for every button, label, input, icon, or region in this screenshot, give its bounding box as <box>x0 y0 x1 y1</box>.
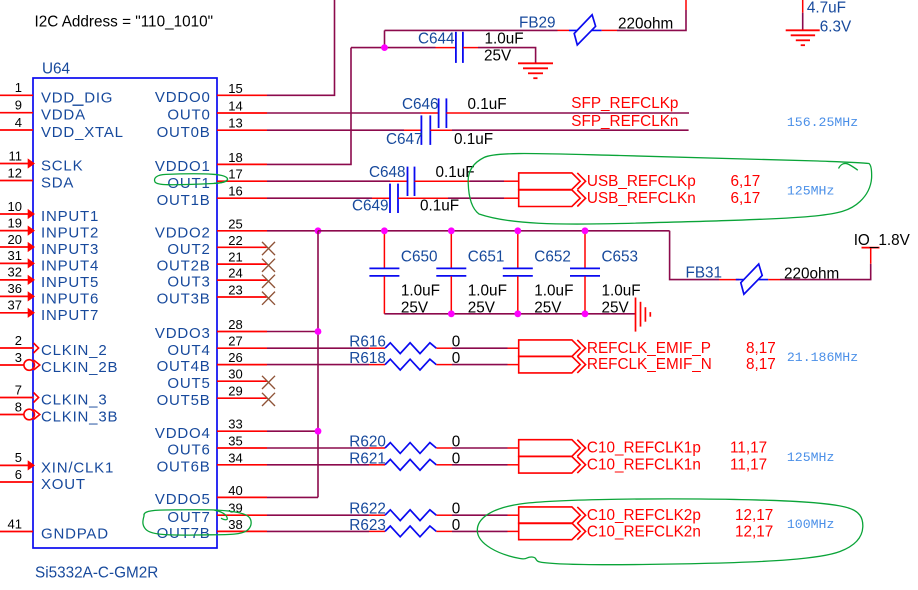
wire FB29 left red lead <box>558 29 570 31</box>
pin 39 OUT7 (right stub + number + name) <box>167 501 267 526</box>
svg-text:1.0uF: 1.0uF <box>485 31 524 48</box>
svg-text:23: 23 <box>228 283 242 298</box>
pin 11 SCLK (left stub + number + name) <box>0 148 83 174</box>
node junction C651 top <box>448 227 455 234</box>
svg-text:12,17: 12,17 <box>735 507 773 524</box>
wire OUT1 row to C648 <box>267 180 390 182</box>
svg-text:16: 16 <box>228 184 242 199</box>
pin 29 OUT5B (right stub + number + name) <box>157 384 275 409</box>
svg-text:I2C Address = "110_1010": I2C Address = "110_1010" <box>35 14 214 31</box>
power symbol IO_1.8V <box>862 248 880 264</box>
svg-text:OUT2B: OUT2B <box>157 258 211 275</box>
svg-text:5: 5 <box>15 450 22 465</box>
svg-text:INPUT2: INPUT2 <box>41 225 99 242</box>
pin 32 INPUT5 (left stub + number + name) <box>0 265 99 291</box>
svg-text:GNDPAD: GNDPAD <box>41 526 109 543</box>
svg-text:R623: R623 <box>349 517 386 534</box>
svg-text:OUT4: OUT4 <box>167 342 210 359</box>
IC U64 <box>33 78 217 548</box>
wire FB31 right red lead <box>768 279 780 281</box>
svg-text:VDD_XTAL: VDD_XTAL <box>41 124 124 141</box>
svg-text:13: 13 <box>228 116 242 131</box>
capacitor C650 <box>369 232 399 314</box>
wire top edge red (off page) <box>685 0 687 10</box>
svg-text:21.186MHz: 21.186MHz <box>787 350 858 365</box>
wire R618 right <box>436 364 452 366</box>
off-page port C10_REFCLK1 (double pentagon) <box>519 440 586 473</box>
pin 3 CLKIN_2B (left stub + number + name) <box>0 350 118 376</box>
svg-text:FB29: FB29 <box>519 15 556 32</box>
node junction C653 top <box>582 227 589 234</box>
svg-text:OUT4B: OUT4B <box>157 358 211 375</box>
svg-text:OUT1B: OUT1B <box>157 192 211 209</box>
ferrite bead FB31 <box>741 264 762 294</box>
wire C644 to ground <box>478 48 536 64</box>
pin 23 OUT3B (right stub + number + name) <box>157 283 275 308</box>
svg-text:R622: R622 <box>349 501 386 518</box>
svg-text:1.0uF: 1.0uF <box>401 283 440 300</box>
capacitor C649 <box>372 184 448 213</box>
wire R623 right <box>436 530 452 532</box>
svg-text:12,17: 12,17 <box>735 524 773 541</box>
node junction C652 bottom <box>514 310 521 317</box>
svg-text:8,17: 8,17 <box>746 340 776 357</box>
svg-text:29: 29 <box>228 384 242 399</box>
node junction C651 bottom <box>448 310 455 317</box>
wire vertical VDDO bus <box>317 231 319 498</box>
wire VDDO3 pin28 to bus <box>267 331 318 333</box>
svg-text:U64: U64 <box>42 61 71 78</box>
svg-text:26: 26 <box>228 350 242 365</box>
svg-text:C653: C653 <box>602 249 639 266</box>
wire R616 left <box>267 347 369 349</box>
svg-text:R616: R616 <box>349 334 386 351</box>
capacitor C644 <box>436 32 479 63</box>
svg-text:18: 18 <box>228 150 242 165</box>
svg-text:9: 9 <box>15 98 22 113</box>
svg-text:CLKIN_3: CLKIN_3 <box>41 392 107 409</box>
pin 38 OUT7B (right stub + number + name) <box>157 517 267 542</box>
pin 37 INPUT7 (left stub + number + name) <box>0 298 99 324</box>
pin 35 OUT6 (right stub + number + name) <box>167 434 267 459</box>
svg-text:OUT0B: OUT0B <box>157 124 211 141</box>
pin 14 OUT0 (right stub + number + name) <box>167 99 267 124</box>
svg-text:3: 3 <box>15 350 22 365</box>
wire VDDO4 pin33 to bus <box>267 430 318 432</box>
svg-text:FB31: FB31 <box>686 265 723 282</box>
svg-text:100MHz: 100MHz <box>787 517 834 532</box>
svg-text:C652: C652 <box>534 249 571 266</box>
svg-text:R620: R620 <box>349 434 386 451</box>
wire 4.7uF cap to ground <box>802 13 804 31</box>
svg-text:6.3V: 6.3V <box>820 19 852 36</box>
svg-text:35: 35 <box>228 434 242 449</box>
svg-text:OUT5B: OUT5B <box>157 392 211 409</box>
svg-text:24: 24 <box>228 266 242 281</box>
svg-text:REFCLK_EMIF_N: REFCLK_EMIF_N <box>587 356 712 373</box>
svg-text:Si5332A-C-GM2R: Si5332A-C-GM2R <box>35 565 158 582</box>
ferrite bead FB29 <box>574 15 595 45</box>
svg-text:OUT6: OUT6 <box>167 442 210 459</box>
svg-text:INPUT6: INPUT6 <box>41 290 99 307</box>
node junction C653 bottom <box>582 310 589 317</box>
svg-text:27: 27 <box>228 334 242 349</box>
node junction C652 top <box>514 227 521 234</box>
svg-text:C10_REFCLK1p: C10_REFCLK1p <box>587 440 701 457</box>
svg-text:C10_REFCLK2n: C10_REFCLK2n <box>587 524 701 541</box>
svg-text:28: 28 <box>228 317 242 332</box>
wire FB29 to top edge <box>617 10 686 30</box>
svg-text:SFP_REFCLKp: SFP_REFCLKp <box>571 95 678 112</box>
svg-text:USB_REFCLKp: USB_REFCLKp <box>587 173 696 190</box>
svg-text:OUT3: OUT3 <box>167 274 210 291</box>
svg-text:30: 30 <box>228 367 242 382</box>
node junction VDDO4/bus <box>315 428 322 435</box>
svg-text:19: 19 <box>8 215 22 230</box>
svg-text:4: 4 <box>15 115 22 130</box>
svg-text:SCLK: SCLK <box>41 158 83 175</box>
svg-text:VDDA: VDDA <box>41 107 86 124</box>
pin 4 VDD_XTAL (left stub + number + name) <box>0 115 124 141</box>
svg-text:R621: R621 <box>349 450 386 467</box>
wire R622 left <box>267 514 369 516</box>
pin 20 INPUT3 (left stub + number + name) <box>0 232 99 258</box>
resistor R618 <box>385 359 436 370</box>
svg-text:6,17: 6,17 <box>731 190 761 207</box>
resistor R620 <box>385 443 436 454</box>
svg-text:25: 25 <box>228 216 242 231</box>
svg-text:USB_REFCLKn: USB_REFCLKn <box>587 190 696 207</box>
svg-text:25V: 25V <box>484 48 512 65</box>
pin 25 VDDO2 (right stub + number + name) <box>155 216 267 241</box>
svg-text:C651: C651 <box>468 249 505 266</box>
svg-text:6: 6 <box>15 467 22 482</box>
node junction VDDO2/bus <box>315 227 322 234</box>
svg-text:17: 17 <box>228 167 242 182</box>
wire R616 right <box>436 347 452 349</box>
svg-text:37: 37 <box>8 298 22 313</box>
capacitor C652 <box>503 232 533 314</box>
svg-text:C647: C647 <box>386 131 423 148</box>
svg-text:8: 8 <box>15 399 22 414</box>
annotation green blob around C10_REFCLK2 <box>477 499 863 565</box>
capacitor C653 <box>570 232 600 314</box>
wire R621 right <box>436 464 452 466</box>
svg-text:OUT0: OUT0 <box>167 107 210 124</box>
svg-text:INPUT1: INPUT1 <box>41 208 99 225</box>
pin 15 VDDO0 (right stub + number + name) <box>155 81 267 106</box>
pin 34 OUT6B (right stub + number + name) <box>157 450 267 475</box>
resistor R616 <box>385 343 436 354</box>
off-page port C10_REFCLK2 (double pentagon) <box>519 507 586 540</box>
pin 12 SDA (left stub + number + name) <box>0 165 74 191</box>
wire FB31 through (blue) <box>736 279 768 281</box>
svg-text:31: 31 <box>8 248 22 263</box>
svg-text:VDDO3: VDDO3 <box>155 325 211 342</box>
pin 10 INPUT1 (left stub + number + name) <box>0 199 99 225</box>
capacitor C647 <box>404 115 452 144</box>
pin 1 VDD_DIG (left stub + number + name) <box>0 80 113 106</box>
pin 7 CLKIN_3 (left stub + number + name) <box>0 382 107 408</box>
svg-text:7: 7 <box>15 382 22 397</box>
svg-text:IO_1.8V: IO_1.8V <box>854 232 911 249</box>
svg-text:C649: C649 <box>352 198 389 215</box>
svg-text:32: 32 <box>8 265 22 280</box>
wire VDDO0 pin15 to top edge <box>267 0 335 95</box>
wire FB31 left red lead <box>719 279 739 281</box>
wire R621 left <box>267 464 369 466</box>
svg-text:OUT7B: OUT7B <box>157 525 211 542</box>
wire VDDO5 pin40 to bus <box>267 496 318 498</box>
wire cap bottom bus <box>384 313 635 315</box>
ground symbol (4.7uF) <box>786 30 820 45</box>
wire net SFP_REFCLKn <box>452 129 689 131</box>
svg-text:38: 38 <box>228 517 242 532</box>
pin 40 VDDO5 (right stub + number + name) <box>155 483 267 508</box>
svg-text:2: 2 <box>15 333 22 348</box>
svg-text:11: 11 <box>9 148 23 163</box>
svg-text:40: 40 <box>228 483 242 498</box>
wire OUT0B row to C647 <box>267 129 404 131</box>
svg-text:4.7uF: 4.7uF <box>807 0 846 17</box>
svg-text:C646: C646 <box>402 96 439 113</box>
svg-text:22: 22 <box>228 233 242 248</box>
capacitor 4.7uF lead from top edge <box>802 0 804 13</box>
node junction C650 top <box>381 227 388 234</box>
svg-text:XIN/CLK1: XIN/CLK1 <box>41 459 114 476</box>
svg-text:OUT3B: OUT3B <box>157 291 211 308</box>
pin 33 VDDO4 (right stub + number + name) <box>155 417 267 442</box>
svg-text:INPUT5: INPUT5 <box>41 274 99 291</box>
pin 8 CLKIN_3B (left stub + number + name) <box>0 399 118 425</box>
svg-text:INPUT4: INPUT4 <box>41 257 99 274</box>
svg-text:OUT2: OUT2 <box>167 241 210 258</box>
pin 30 OUT5 (right stub + number + name) <box>167 367 275 392</box>
pin 18 VDDO1 (right stub + number + name) <box>155 150 267 175</box>
svg-text:1.0uF: 1.0uF <box>602 283 641 300</box>
svg-text:SDA: SDA <box>41 175 74 192</box>
resistor R622 <box>385 510 436 521</box>
wire C644 node horizontal y=47.6 <box>351 47 436 49</box>
ground symbol (cap bus, sideways bars) <box>636 298 651 332</box>
pin 5 XIN/CLK1 (left stub + number + name) <box>0 450 114 476</box>
pin 28 VDDO3 (right stub + number + name) <box>155 317 267 342</box>
pin 2 CLKIN_2 (left stub + number + name) <box>0 333 107 359</box>
svg-text:0.1uF: 0.1uF <box>468 96 507 113</box>
svg-text:0.1uF: 0.1uF <box>454 131 493 148</box>
off-page port USB_REFCLK (double pentagon) <box>519 173 586 207</box>
pin 24 OUT3 (right stub + number + name) <box>167 266 275 291</box>
svg-text:41: 41 <box>8 516 22 531</box>
pin 31 INPUT4 (left stub + number + name) <box>0 248 99 274</box>
capacitor C651 <box>436 232 466 314</box>
svg-text:VDD_DIG: VDD_DIG <box>41 89 113 106</box>
svg-text:OUT7: OUT7 <box>167 509 210 526</box>
pin 26 OUT4B (right stub + number + name) <box>157 350 267 375</box>
wire FB31 to IO_1.8V <box>780 264 871 280</box>
wire R620 right <box>436 447 452 449</box>
svg-text:220ohm: 220ohm <box>618 16 673 33</box>
svg-text:VDDO2: VDDO2 <box>155 224 211 241</box>
off-page port REFCLK_EMIF (double pentagon) <box>519 340 586 373</box>
svg-text:XOUT: XOUT <box>41 476 86 493</box>
svg-text:125MHz: 125MHz <box>787 184 834 199</box>
svg-text:VDDO1: VDDO1 <box>155 158 211 175</box>
svg-text:C10_REFCLK2p: C10_REFCLK2p <box>587 507 701 524</box>
svg-text:36: 36 <box>8 281 22 296</box>
pin 13 OUT0B (right stub + number + name) <box>157 116 267 141</box>
pin 9 VDDA (left stub + number + name) <box>0 98 86 124</box>
svg-text:C650: C650 <box>401 249 438 266</box>
svg-text:CLKIN_3B: CLKIN_3B <box>41 409 118 426</box>
wire net SFP_REFCLKp <box>470 112 689 114</box>
svg-text:INPUT3: INPUT3 <box>41 241 99 258</box>
svg-text:OUT6B: OUT6B <box>157 458 211 475</box>
wire R623 left <box>267 530 369 532</box>
wire y=30.4 to FB29 <box>385 29 558 31</box>
svg-text:0.1uF: 0.1uF <box>420 198 459 215</box>
pin 19 INPUT2 (left stub + number + name) <box>0 215 99 241</box>
svg-text:1: 1 <box>15 80 22 95</box>
svg-text:156.25MHz: 156.25MHz <box>787 115 858 130</box>
pin 17 OUT1 (right stub + number + name) <box>167 167 267 192</box>
pin 21 OUT2B (right stub + number + name) <box>157 250 275 275</box>
pin 6 XOUT (left stub + number + name) <box>0 467 86 493</box>
svg-text:11,17: 11,17 <box>730 440 767 457</box>
svg-text:21: 21 <box>228 250 242 265</box>
wire to port USB_REFCLKp <box>470 180 504 182</box>
pin 16 OUT1B (right stub + number + name) <box>157 184 267 209</box>
node junction VDDO3/bus <box>315 328 322 335</box>
ground symbol (C644) <box>518 63 553 78</box>
pin 36 INPUT6 (left stub + number + name) <box>0 281 99 307</box>
svg-text:C10_REFCLK1n: C10_REFCLK1n <box>587 456 701 473</box>
node junction at FB29 branch <box>381 44 388 51</box>
wire to port USB_REFCLKn <box>448 197 504 199</box>
svg-text:33: 33 <box>228 417 242 432</box>
svg-text:6,17: 6,17 <box>731 173 761 190</box>
annotation green pen squiggle <box>839 163 858 170</box>
svg-text:CLKIN_2B: CLKIN_2B <box>41 359 118 376</box>
resistor R621 <box>385 459 436 470</box>
resistor R623 <box>385 526 436 537</box>
capacitor C648 <box>390 167 470 196</box>
svg-text:VDDO4: VDDO4 <box>155 425 211 442</box>
capacitor C646 <box>421 98 471 128</box>
wire FB29 branch vertical <box>384 30 386 47</box>
svg-text:34: 34 <box>228 450 242 465</box>
svg-text:VDDO5: VDDO5 <box>155 491 211 508</box>
wire FB29 through (blue) <box>569 29 602 31</box>
annotation green ellipse around OUT7/OUT7B <box>143 510 251 535</box>
svg-text:SFP_REFCLKn: SFP_REFCLKn <box>571 113 678 130</box>
svg-text:REFCLK_EMIF_P: REFCLK_EMIF_P <box>587 340 711 357</box>
wire R618 left <box>267 364 369 366</box>
wire R622 right <box>436 514 452 516</box>
svg-text:12: 12 <box>8 165 22 180</box>
svg-text:10: 10 <box>8 199 22 214</box>
svg-text:C648: C648 <box>369 164 406 181</box>
pin 27 OUT4 (right stub + number + name) <box>167 334 267 359</box>
annotation green ellipse around OUT1 <box>155 174 228 185</box>
svg-text:INPUT7: INPUT7 <box>41 307 99 324</box>
svg-text:11,17: 11,17 <box>730 456 767 473</box>
svg-text:1.0uF: 1.0uF <box>534 283 573 300</box>
svg-text:VDDO0: VDDO0 <box>155 89 211 106</box>
svg-text:CLKIN_2: CLKIN_2 <box>41 342 107 359</box>
svg-text:8,17: 8,17 <box>746 356 776 373</box>
wire OUT0 row to C646 <box>267 112 421 114</box>
wire FB31 drop <box>670 231 719 280</box>
wire R620 left <box>267 447 369 449</box>
svg-text:1.0uF: 1.0uF <box>468 283 507 300</box>
annotation green blob around USB_REFCLK <box>468 154 872 225</box>
svg-text:20: 20 <box>8 232 22 247</box>
svg-text:125MHz: 125MHz <box>787 450 834 465</box>
svg-text:14: 14 <box>228 99 242 114</box>
wire VDDO1 pin18 up to C644 node <box>267 48 351 165</box>
wire VDDO2 top bus <box>318 230 670 232</box>
pin 22 OUT2 (right stub + number + name) <box>167 233 275 258</box>
svg-text:R618: R618 <box>349 350 386 367</box>
wire VDDO2 pin25 to bus <box>267 230 318 232</box>
svg-text:OUT5: OUT5 <box>167 375 210 392</box>
wire OUT1B row to C649 <box>267 197 372 199</box>
svg-text:15: 15 <box>228 81 242 96</box>
wire FB29 right red lead <box>602 29 617 31</box>
pin 41 GNDPAD (left stub + number + name) <box>0 516 109 542</box>
svg-text:C644: C644 <box>418 31 455 48</box>
